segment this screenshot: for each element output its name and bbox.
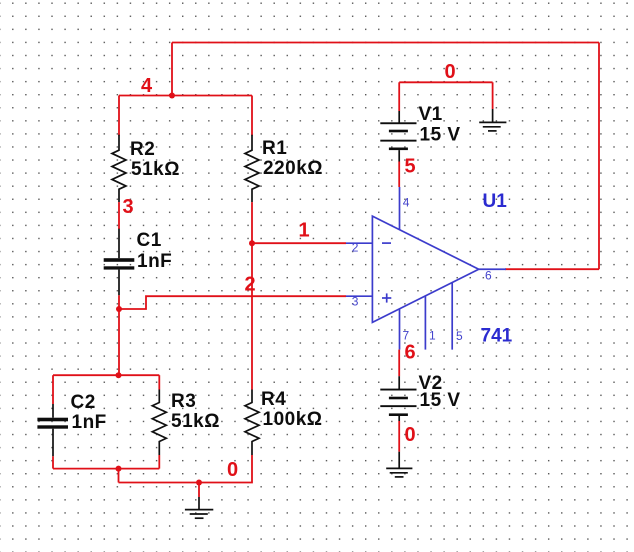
wire net2: step to op-amp non-inverting input bbox=[119, 296, 346, 309]
svg-text:1: 1 bbox=[429, 329, 436, 343]
op-amp U1 plus sign bbox=[382, 293, 391, 302]
capacitor C2 bbox=[37, 375, 68, 456]
svg-text:0: 0 bbox=[405, 424, 416, 446]
resistor R4 bbox=[245, 390, 259, 456]
junction net2 at C2/R3 top rail bbox=[116, 372, 122, 378]
op-amp U1 top power stub pin4 bbox=[399, 187, 401, 230]
resistor R3 bbox=[152, 375, 166, 455]
wire net4: right vertical bbox=[598, 43, 600, 270]
wire net1: R1 bottom down to R4 top bbox=[251, 202, 253, 389]
svg-text:1nF: 1nF bbox=[72, 412, 107, 433]
svg-text:6: 6 bbox=[405, 342, 416, 364]
wire net1: to op-amp inverting input bbox=[252, 242, 346, 244]
ground GND2 near V1 bbox=[479, 109, 506, 131]
ground GND1 bottom middle bbox=[185, 497, 213, 518]
svg-text:0: 0 bbox=[227, 459, 238, 481]
junction net0 at ground stem bbox=[196, 480, 202, 486]
ground GND3 below V2 bbox=[386, 452, 412, 477]
svg-text:C1: C1 bbox=[137, 230, 162, 251]
svg-text:C2: C2 bbox=[71, 392, 96, 413]
svg-text:2: 2 bbox=[352, 241, 359, 255]
junction net2 below C1 bbox=[116, 306, 122, 312]
svg-text:R4: R4 bbox=[261, 389, 286, 410]
wire net0: jog down from bottom rail bbox=[118, 469, 120, 483]
wire net0: R4 bottom to ground rail bbox=[199, 455, 252, 483]
resistor R1 bbox=[245, 135, 259, 202]
wire net2: C2/R3 top rail bbox=[53, 374, 159, 376]
wire net6: op-amp pin7 down to V2 bbox=[398, 350, 400, 377]
wire net0: ground stem red part bbox=[198, 483, 200, 498]
svg-text:2: 2 bbox=[245, 274, 256, 296]
op-amp U1 output stub pin6 bbox=[479, 268, 506, 270]
svg-text:220kΩ: 220kΩ bbox=[263, 158, 323, 179]
svg-text:R3: R3 bbox=[171, 391, 196, 412]
wire net5: V1 bottom to op-amp pin4 bbox=[398, 162, 400, 188]
svg-text:6: 6 bbox=[485, 269, 492, 283]
wire net0: to ground junction bbox=[119, 482, 200, 484]
wire net4: op-amp output horizontal bbox=[505, 268, 599, 270]
svg-text:R2: R2 bbox=[130, 139, 155, 160]
wire net0: C2 bottom lead bbox=[52, 456, 54, 468]
svg-text:51kΩ: 51kΩ bbox=[131, 159, 180, 180]
svg-text:15 V: 15 V bbox=[420, 125, 461, 146]
capacitor C1 bbox=[104, 229, 135, 296]
wire net4: top feedback horizontal bbox=[172, 42, 599, 44]
battery V2 bbox=[380, 376, 416, 421]
svg-text:U1: U1 bbox=[483, 191, 508, 212]
svg-text:100kΩ: 100kΩ bbox=[263, 409, 323, 430]
wire net0: V1 top lead bbox=[398, 82, 400, 111]
op-amp U1 triangle bbox=[372, 216, 478, 322]
svg-text:51kΩ: 51kΩ bbox=[171, 411, 220, 432]
wire net3: R2 bottom to C1 top bbox=[118, 202, 120, 229]
svg-text:3: 3 bbox=[123, 196, 134, 218]
wire net0: down to V1 ground bbox=[492, 82, 494, 109]
svg-text:R1: R1 bbox=[262, 138, 287, 159]
wire net2: C1 bottom lead to junction bbox=[118, 295, 120, 309]
wire net4: R1 top lead bbox=[251, 96, 253, 136]
wire net0: V1 top rail to ground bbox=[399, 81, 492, 83]
svg-text:15 V: 15 V bbox=[420, 390, 461, 411]
svg-text:7: 7 bbox=[403, 329, 410, 343]
wire net2: junction down to C2/R3 rail bbox=[118, 309, 120, 375]
svg-text:4: 4 bbox=[141, 75, 153, 97]
svg-text:0: 0 bbox=[445, 61, 456, 83]
op-amp U1 bottom power stub pin7 bbox=[399, 309, 401, 350]
svg-text:1: 1 bbox=[299, 220, 310, 242]
op-amp U1 stub pin5 bbox=[451, 283, 453, 350]
svg-text:5: 5 bbox=[456, 329, 463, 343]
wire net0: R3 bottom lead bbox=[158, 455, 160, 469]
svg-text:1nF: 1nF bbox=[137, 251, 172, 272]
svg-text:3: 3 bbox=[352, 295, 359, 309]
battery V1 bbox=[380, 111, 416, 162]
op-amp U1 stub pin1 bbox=[424, 296, 426, 350]
svg-text:741: 741 bbox=[481, 326, 513, 347]
op-amp U1 non-inverting input stub pin3 bbox=[346, 295, 373, 297]
wire net0: bottom rail C2-R3 bbox=[53, 468, 159, 470]
svg-text:4: 4 bbox=[403, 196, 410, 210]
svg-text:V1: V1 bbox=[419, 104, 443, 125]
resistor R2 bbox=[112, 135, 126, 202]
wire net4: horizontal rail over R2 and R1 bbox=[119, 95, 252, 97]
junction node 4 bbox=[169, 93, 175, 99]
junction net1 at inverting input branch bbox=[249, 240, 255, 246]
wire net0: V2 bottom to ground bbox=[398, 421, 400, 452]
junction net0 at bottom rail bbox=[116, 466, 122, 472]
wire net4: vertical drop to node-4 junction bbox=[171, 43, 173, 96]
svg-text:5: 5 bbox=[405, 156, 416, 178]
wire net4: R2 top lead bbox=[118, 96, 120, 136]
op-amp U1 minus sign bbox=[382, 242, 391, 244]
op-amp U1 inverting input stub pin2 bbox=[346, 242, 373, 244]
